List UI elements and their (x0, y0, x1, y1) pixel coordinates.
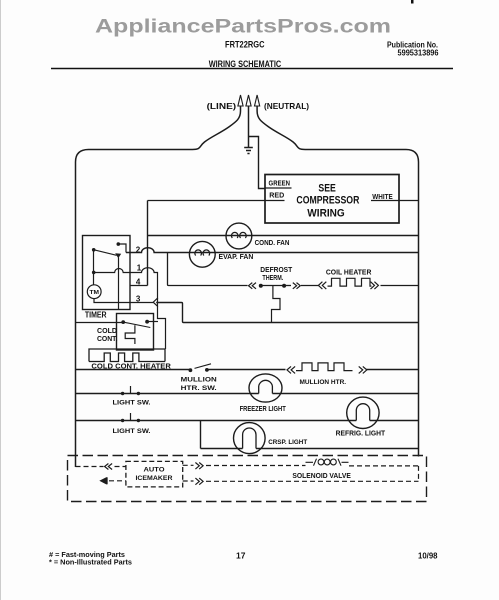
svg-text:EVAP. FAN: EVAP. FAN (219, 252, 254, 261)
svg-text:COIL HEATER: COIL HEATER (326, 268, 372, 277)
svg-text:FRT22RGC: FRT22RGC (225, 40, 265, 50)
svg-text:MULLION HTR.: MULLION HTR. (300, 379, 347, 386)
svg-text:SEE: SEE (318, 182, 335, 194)
svg-text:COND. FAN: COND. FAN (255, 238, 290, 247)
svg-text:3: 3 (136, 294, 141, 303)
svg-text:FREEZER LIGHT: FREEZER LIGHT (240, 406, 287, 413)
svg-text:AUTO: AUTO (144, 467, 165, 474)
svg-text:1: 1 (137, 263, 142, 272)
svg-text:COLD: COLD (97, 328, 117, 335)
svg-text:LIGHT SW.: LIGHT SW. (113, 428, 151, 435)
svg-text:* = Non-Illustrated Parts: * = Non-Illustrated Parts (49, 558, 132, 567)
svg-text:LIGHT SW.: LIGHT SW. (113, 400, 151, 407)
svg-text:10/98: 10/98 (418, 552, 438, 561)
svg-text:2: 2 (136, 246, 141, 255)
svg-text:CONT.: CONT. (97, 336, 118, 343)
svg-text:COLD CONT. HEATER: COLD CONT. HEATER (91, 363, 170, 370)
svg-text:CRSP. LIGHT: CRSP. LIGHT (268, 439, 308, 446)
svg-text:MULLION: MULLION (181, 377, 217, 384)
svg-text:(LINE): (LINE) (207, 102, 237, 111)
svg-text:GREEN: GREEN (269, 181, 291, 188)
svg-text:COMPRESSOR: COMPRESSOR (296, 195, 359, 207)
svg-text:WIRING SCHEMATIC: WIRING SCHEMATIC (209, 59, 282, 69)
svg-text:17: 17 (236, 551, 246, 561)
svg-text:WHITE: WHITE (372, 194, 393, 201)
svg-text:(NEUTRAL): (NEUTRAL) (264, 102, 309, 111)
svg-text:TM: TM (90, 290, 100, 296)
svg-text:AppliancePartsPros.com: AppliancePartsPros.com (95, 16, 391, 38)
svg-text:WIRING: WIRING (307, 208, 344, 220)
svg-text:REFRIG. LIGHT: REFRIG. LIGHT (336, 430, 386, 437)
svg-text:ICEMAKER: ICEMAKER (136, 475, 174, 482)
svg-text:RED: RED (269, 193, 284, 200)
svg-text:TIMER: TIMER (85, 310, 107, 319)
svg-text:5995313896: 5995313896 (398, 49, 440, 58)
svg-text:4: 4 (136, 278, 141, 287)
svg-text:THERM.: THERM. (262, 273, 283, 282)
svg-text:SOLENOID VALVE: SOLENOID VALVE (292, 471, 351, 480)
svg-text:HTR. SW.: HTR. SW. (181, 385, 217, 392)
